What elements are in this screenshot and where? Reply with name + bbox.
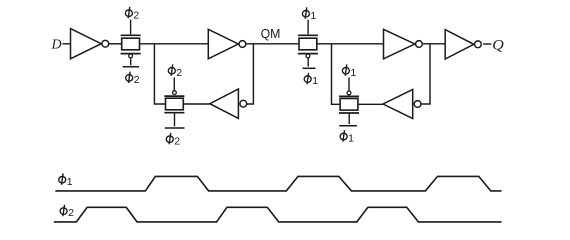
- clock label phi1 (TG4 bottom): [340, 130, 354, 144]
- svg-text:1: 1: [312, 75, 318, 87]
- svg-text:1: 1: [348, 133, 354, 145]
- inverter U1: [71, 29, 109, 59]
- waveform phi2: [54, 207, 502, 222]
- inverter U2: [208, 29, 246, 59]
- svg-text:1: 1: [350, 67, 356, 79]
- clock label phi2 (TG1 bottom): [126, 72, 140, 86]
- svg-text:D: D: [51, 38, 62, 53]
- overbar of phi1 (TG4 bottom): [339, 125, 357, 127]
- wire U5 input up to U4 output node: [421, 44, 430, 104]
- svg-text:2: 2: [176, 67, 182, 79]
- node A wire down to TG2: [154, 44, 165, 104]
- clock label phi2 (TG2 top): [168, 64, 182, 78]
- wire U2 to TG3: [246, 43, 299, 45]
- transmission gate TG2: [164, 91, 184, 113]
- inverter U6: [445, 30, 481, 59]
- wire TG1 bottom gate stub: [130, 58, 132, 65]
- wire TG1 top gate stub: [130, 20, 132, 35]
- wire U3 input up to QM node: [247, 44, 254, 104]
- svg-text:2: 2: [134, 74, 140, 86]
- wire TG3 top gate stub: [307, 20, 309, 35]
- clock label phi2 (TG1 top): [125, 7, 139, 21]
- wire TG4 to U5: [358, 103, 383, 105]
- svg-text:1: 1: [310, 10, 316, 22]
- waveform phi1: [55, 176, 501, 191]
- svg-text:Q: Q: [492, 38, 504, 54]
- wire TG3 bottom gate stub: [307, 58, 309, 67]
- wire TG2 bottom gate stub: [174, 113, 176, 126]
- overbar of phi2 (TG2 bottom): [165, 127, 185, 129]
- svg-text:2: 2: [174, 135, 180, 147]
- wire TG2 to U3: [183, 103, 210, 105]
- transmission gate TG3: [298, 35, 318, 58]
- svg-text:2: 2: [133, 9, 139, 21]
- wire TG4 bottom gate stub: [348, 113, 350, 124]
- wire TG2 top gate stub: [173, 78, 175, 91]
- wire U4 to U6: [423, 43, 445, 45]
- svg-text:1: 1: [67, 176, 73, 188]
- wire U6 to Q: [483, 43, 491, 45]
- overbar of phi2 (TG1 bottom): [123, 66, 139, 68]
- clock label phi1 (timing diagram): [59, 173, 73, 187]
- wire TG4 top gate stub: [348, 78, 350, 92]
- wire U1 to TG1: [109, 43, 122, 45]
- inverter U3 (feedback, points left): [210, 89, 247, 118]
- transmission gate TG1: [121, 35, 141, 58]
- svg-text:QM: QM: [261, 26, 281, 41]
- wire D to U1: [63, 43, 71, 45]
- node B wire down to TG4: [332, 44, 341, 105]
- clock label phi2 (timing diagram): [60, 205, 74, 219]
- wire TG3 to U4: [317, 43, 384, 45]
- svg-text:2: 2: [68, 207, 74, 219]
- inverter U5 (feedback, points left): [383, 89, 421, 118]
- transmission gate TG4: [339, 91, 359, 113]
- overbar of phi1 (TG3 bottom): [303, 67, 316, 69]
- clock label phi1 (TG4 top): [342, 64, 356, 78]
- inverter U4: [384, 29, 423, 59]
- clock label phi1 (TG3 bottom): [304, 73, 318, 87]
- clock label phi2 (TG2 bottom): [166, 133, 180, 147]
- clock label phi1 (TG3 top): [302, 7, 316, 21]
- wire TG1 to U2: [140, 43, 209, 45]
